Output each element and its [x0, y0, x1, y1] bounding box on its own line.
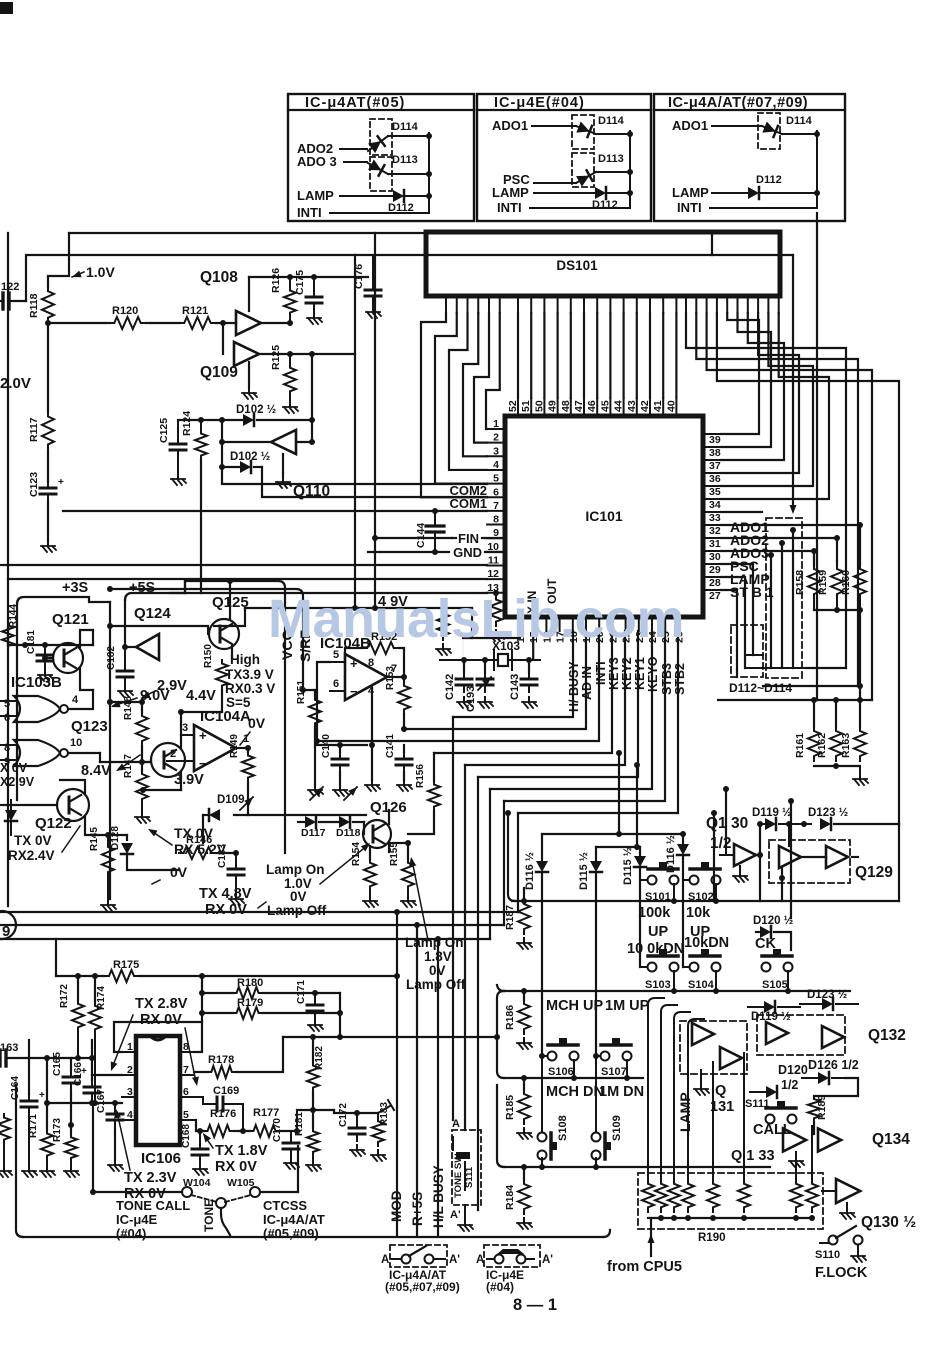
resistor R156 leg — [433, 753, 435, 781]
svg-text:R121: R121 — [182, 305, 208, 317]
svg-text:A': A' — [542, 1254, 553, 1266]
svg-text:10k: 10k — [686, 905, 711, 921]
arrow lamp2 — [412, 860, 428, 940]
svg-text:1/2: 1/2 — [781, 1078, 798, 1092]
wire R146 right — [217, 852, 236, 854]
wire from CPU5 arrow — [650, 1218, 652, 1256]
transistor Q122 — [57, 789, 89, 821]
svg-text:R189: R189 — [816, 1095, 828, 1120]
svg-text:D109: D109 — [217, 794, 245, 806]
svg-text:Lamp Off: Lamp Off — [406, 977, 466, 992]
wire STB3 line — [504, 631, 665, 801]
resistor R117 — [47, 323, 49, 412]
svg-text:TX3.9 V: TX3.9 V — [225, 667, 274, 682]
buffer Q130b — [822, 1190, 836, 1192]
svg-text:ADO1: ADO1 — [672, 118, 708, 133]
wire vert340 — [339, 993, 341, 1037]
svg-text:R172: R172 — [59, 984, 70, 1008]
resistors R190 network — [642, 1180, 654, 1212]
svg-text:Q129: Q129 — [855, 864, 893, 881]
svg-text:40: 40 — [665, 400, 677, 412]
ground Q133 — [795, 1152, 797, 1156]
diode D114 box1 — [370, 119, 392, 155]
svg-text:7: 7 — [493, 500, 499, 512]
svg-text:(#04): (#04) — [116, 1226, 146, 1241]
svg-text:RX2.4V: RX2.4V — [8, 848, 55, 863]
switch S105 — [762, 963, 771, 972]
svg-text:C165: C165 — [52, 1052, 63, 1076]
wire 3S vert x110 — [109, 602, 111, 899]
svg-text:8.4V: 8.4V — [81, 763, 111, 779]
svg-text:ManualsLib.com: ManualsLib.com — [268, 589, 684, 649]
svg-text:R187: R187 — [504, 905, 516, 930]
diode D119 half b — [748, 1006, 764, 1008]
svg-text:31: 31 — [709, 538, 721, 550]
wire R148 top — [110, 701, 142, 703]
IC101 left pins 1-13 — [487, 428, 505, 430]
diode D117 — [310, 787, 323, 800]
svg-text:C143: C143 — [509, 674, 521, 700]
capacitor C165 — [70, 1058, 72, 1070]
wire STB2 west drop — [517, 813, 519, 912]
resistor R160 — [859, 525, 861, 565]
svg-text:R+5S: R+5S — [410, 1192, 425, 1226]
ground R151 — [314, 785, 316, 790]
wire INTI box3 — [710, 207, 817, 209]
capacitor C175 — [313, 277, 315, 290]
partial transistor left — [0, 911, 16, 939]
svg-text:2: 2 — [127, 1064, 133, 1076]
diode D118 — [344, 787, 357, 800]
svg-text:1M DN: 1M DN — [599, 1084, 644, 1100]
wire row1 — [512, 900, 899, 902]
ground S110 — [857, 1245, 859, 1251]
capacitor C164 — [28, 1040, 30, 1094]
wire D114 to node — [388, 135, 429, 137]
switch S107 — [593, 1053, 599, 1059]
diode D112 box2 — [595, 187, 606, 199]
svg-text:10: 10 — [70, 737, 82, 749]
resistor R126 — [289, 277, 291, 289]
capacitor C122 partial — [0, 300, 3, 302]
dashed box ADO select — [766, 518, 802, 678]
svg-text:IC106: IC106 — [141, 1150, 181, 1167]
wire pin10 GND — [368, 551, 449, 553]
svg-text:37: 37 — [709, 460, 721, 472]
svg-text:CTCSS: CTCSS — [263, 1198, 307, 1213]
wire STB3 west drop — [503, 801, 505, 925]
svg-text:R144: R144 — [8, 604, 19, 628]
svg-text:R175: R175 — [113, 959, 139, 971]
buffer Q108 left — [236, 311, 261, 335]
svg-text:C142: C142 — [444, 674, 456, 700]
wire collector bus box1 — [428, 133, 430, 213]
svg-text:R120: R120 — [112, 305, 138, 317]
wire matrix row4 — [497, 1085, 504, 1167]
svg-text:49: 49 — [547, 400, 559, 412]
svg-text:122: 122 — [1, 281, 19, 293]
svg-text:RX0.3 V: RX0.3 V — [225, 681, 275, 696]
wire MOD vert — [396, 912, 398, 1235]
svg-text:LAMP: LAMP — [672, 185, 709, 200]
wire ADO vertical b — [781, 543, 783, 668]
diode D126 half — [802, 1077, 818, 1079]
wire KEY0 line — [490, 631, 652, 789]
svg-text:52: 52 — [507, 400, 519, 412]
svg-text:R180: R180 — [237, 977, 263, 989]
svg-text:1: 1 — [127, 1041, 133, 1053]
svg-text:Q123: Q123 — [71, 718, 108, 735]
svg-text:Q121: Q121 — [52, 611, 89, 628]
wire ADO3 — [344, 161, 367, 163]
wire D126 to R189 — [814, 1078, 858, 1096]
wire nor2 to Q123 — [99, 753, 101, 762]
svg-text:43: 43 — [626, 400, 638, 412]
dashed box Q129 — [769, 840, 850, 883]
ground R157 — [442, 644, 444, 649]
svg-text:RX 0V: RX 0V — [215, 1159, 257, 1175]
bus DS101 middle to IC101 top pins — [517, 313, 519, 398]
bus DS101 left loop to IC101 pins 1-6 — [421, 313, 487, 497]
switch S104 — [683, 966, 689, 968]
wire Q126 emitter — [388, 844, 390, 852]
diode D112 box1 — [393, 190, 404, 202]
ground Q110 — [282, 454, 284, 477]
svg-text:(#05,#07,#09): (#05,#07,#09) — [385, 1280, 460, 1294]
wire pin3 row — [47, 1102, 122, 1104]
buffer Q133 — [783, 1128, 806, 1151]
wire Q125 emitter — [231, 646, 233, 658]
svg-text:34: 34 — [709, 499, 721, 511]
diode D114 box3 — [758, 113, 780, 149]
svg-text:R145: R145 — [89, 827, 100, 851]
resistor R148 — [141, 700, 143, 712]
wire row1 west feed — [508, 813, 515, 901]
wire top to R161s — [718, 699, 872, 701]
svg-text:C166: C166 — [73, 1062, 84, 1086]
wire INTI line — [317, 631, 599, 741]
dashed box lower select — [731, 625, 763, 677]
wire SRF vert — [302, 600, 304, 690]
wire top bias rail — [249, 276, 368, 278]
svg-text:D118: D118 — [336, 827, 361, 839]
capacitor C183 — [235, 853, 237, 862]
dashed box A-A right — [484, 1245, 540, 1267]
wire VCC feed row — [185, 581, 285, 594]
svg-text:Q134: Q134 — [872, 1131, 910, 1148]
wire left border vert — [7, 233, 9, 906]
switch S109 — [592, 1133, 601, 1142]
ground R147 — [141, 804, 143, 812]
wire IC104B +in — [303, 662, 330, 690]
capacitor C123 — [47, 450, 49, 481]
wire vert 375 — [374, 233, 376, 608]
resistor R154 — [369, 846, 371, 859]
svg-text:X 0V: X 0V — [0, 761, 28, 775]
svg-text:IC-μ4E(#04): IC-μ4E(#04) — [494, 95, 585, 111]
svg-text:6: 6 — [4, 712, 10, 724]
svg-text:S105: S105 — [762, 979, 788, 991]
svg-text:STB2: STB2 — [673, 663, 687, 695]
svg-text:GND: GND — [453, 545, 482, 560]
wire pin33 — [721, 511, 762, 513]
svg-text:INTI: INTI — [297, 205, 322, 220]
wire bus h3 — [0, 938, 490, 940]
wire S109 feed — [595, 1056, 597, 1132]
svg-text:R117: R117 — [28, 417, 40, 442]
svg-text:0V: 0V — [170, 864, 188, 880]
capacitor C171 — [314, 993, 316, 998]
svg-text:3: 3 — [127, 1086, 133, 1098]
ground tonesw — [464, 1205, 466, 1218]
svg-text:F.LOCK: F.LOCK — [815, 1265, 868, 1281]
switch S102 — [683, 879, 689, 881]
wire C172 row — [334, 1110, 378, 1113]
svg-text:C172: C172 — [338, 1103, 349, 1127]
wire pin11 — [0, 564, 487, 566]
svg-text:Lamp On: Lamp On — [266, 862, 325, 877]
wire Q124 in — [125, 646, 136, 648]
svg-text:C167: C167 — [96, 1089, 107, 1113]
wire HLBUSY vert — [437, 939, 439, 1235]
svg-text:D116 ½: D116 ½ — [524, 852, 536, 890]
wire KEY1 west drop — [477, 777, 479, 1210]
svg-text:D113: D113 — [392, 154, 418, 166]
svg-text:TX 1.8V: TX 1.8V — [215, 1143, 268, 1159]
capacitor C182 — [124, 648, 126, 664]
wire KEY0 tap Q130 — [725, 789, 727, 847]
switch S110 — [829, 1236, 838, 1245]
wire SRF feed row — [110, 589, 303, 600]
wire KEY0 west drop — [489, 789, 491, 939]
wire col 744 — [743, 1053, 745, 1180]
buffer Q132a — [766, 1022, 788, 1044]
wire 9V vert x181 — [180, 712, 182, 735]
wire tone scurve — [221, 1208, 230, 1235]
svg-text:38: 38 — [709, 447, 721, 459]
wire vert202 — [201, 976, 203, 1022]
wire Q125 collector — [229, 581, 231, 619]
diode D113 box1 — [370, 157, 392, 191]
capacitor C176 — [372, 255, 374, 283]
buffer Q131a — [692, 1023, 714, 1045]
resistor R153 — [403, 677, 405, 682]
wire 5S riser — [184, 581, 186, 593]
svg-text:R162: R162 — [816, 733, 828, 758]
svg-text:R161: R161 — [794, 733, 806, 758]
IC101 bottom pins 14-26 — [519, 617, 521, 631]
resistor R162 — [835, 700, 837, 727]
resistor R155 — [407, 843, 409, 859]
wire collector bus box2 — [629, 131, 631, 208]
svg-text:S110: S110 — [815, 1249, 840, 1261]
transistor Q125 — [209, 619, 239, 649]
label 1.0V — [72, 272, 84, 277]
svg-text:D112: D112 — [592, 199, 618, 211]
svg-text:6: 6 — [493, 486, 499, 498]
svg-text:+: + — [58, 477, 64, 488]
variant box IC-u4AT(#05) — [288, 94, 474, 221]
svg-text:TX 4.8V: TX 4.8V — [199, 886, 252, 902]
diode D112 box3 — [748, 187, 759, 199]
wire Q109 ground — [248, 362, 250, 388]
transistor Q121 — [53, 643, 83, 673]
wire R148 mid — [141, 746, 143, 770]
resistor R159 — [836, 538, 838, 565]
svg-text:163: 163 — [0, 1042, 18, 1054]
wire STB3 tap CK — [790, 801, 792, 918]
svg-text:R126: R126 — [270, 268, 282, 293]
resistor R161 — [813, 700, 815, 727]
diode D128 — [108, 834, 127, 836]
svg-text:S104: S104 — [688, 979, 715, 991]
svg-text:8 — 1: 8 — 1 — [513, 1296, 557, 1314]
svg-text:1.0V: 1.0V — [86, 264, 115, 280]
nor gate 2 out — [68, 752, 100, 754]
svg-text:IC104A: IC104A — [200, 708, 251, 725]
svg-text:41: 41 — [652, 400, 664, 412]
wire R149 to D109 — [234, 782, 248, 815]
wire R175 row — [56, 975, 105, 977]
DS101 pins — [445, 297, 447, 313]
svg-text:INTI: INTI — [677, 200, 702, 215]
svg-text:LAMP: LAMP — [492, 185, 529, 200]
svg-text:45: 45 — [599, 400, 611, 412]
wire D102b to COM1 — [262, 467, 487, 497]
scan artifact corner — [0, 2, 13, 14]
switch S106 — [539, 1053, 545, 1059]
switch S111 in box — [452, 1137, 454, 1150]
resistor R164 — [495, 593, 497, 596]
svg-text:X2.9V: X2.9V — [0, 775, 35, 789]
capacitor C170 — [290, 1131, 292, 1136]
cpu IC101 — [505, 416, 703, 617]
arrow tx28 a — [112, 1015, 133, 1068]
wire R124 down — [200, 460, 202, 593]
wire AD IN line — [404, 631, 586, 729]
resistor R151 — [314, 690, 316, 696]
svg-text:7: 7 — [183, 1064, 189, 1076]
arrow lamp to Q126 — [320, 845, 368, 884]
svg-text:KEY1: KEY1 — [633, 657, 647, 690]
resistor R189 — [808, 1096, 820, 1122]
svg-text:D112~D114: D112~D114 — [729, 681, 792, 695]
svg-text:C193: C193 — [465, 686, 477, 712]
switch S103 — [640, 966, 647, 968]
resistor R174 — [94, 976, 96, 1002]
svg-text:A': A' — [450, 1209, 461, 1221]
svg-text:C181: C181 — [26, 630, 37, 654]
svg-text:Q132: Q132 — [868, 1027, 906, 1044]
wire H/BUSY west drop — [452, 717, 454, 1120]
IC106 pin stubs — [122, 1051, 136, 1053]
wire col92 down — [92, 1103, 94, 1192]
svg-text:Q130 ½: Q130 ½ — [861, 1214, 916, 1231]
wire IC104B pin4 gnd — [371, 688, 373, 780]
capacitor C144 — [434, 511, 436, 526]
svg-text:2.0V: 2.0V — [0, 375, 31, 392]
wire IC104B out — [387, 676, 404, 678]
wire ADO3 pin30 — [721, 550, 814, 552]
svg-text:D112: D112 — [756, 174, 782, 186]
wire pin13 — [170, 592, 487, 594]
diode D120 half — [756, 931, 760, 933]
wire KEY2 line — [465, 631, 625, 765]
wire row1110 — [297, 1109, 334, 1111]
wire R118 node — [45, 320, 51, 326]
capacitor C166 — [91, 1040, 93, 1080]
wire S109 to right curve — [596, 1159, 604, 1161]
resistor R157 — [437, 610, 449, 640]
variant box IC-u4E(#04) — [477, 94, 651, 221]
svg-text:R184: R184 — [504, 1185, 516, 1210]
wire ADO1 pin32 — [721, 524, 860, 526]
resistor R183 — [377, 1113, 379, 1118]
switch S101 — [640, 879, 647, 881]
svg-text:C141: C141 — [385, 734, 396, 758]
svg-text:S103: S103 — [645, 979, 671, 991]
ground R125 — [289, 402, 291, 407]
svg-text:IC-μ4E: IC-μ4E — [116, 1212, 158, 1227]
wire bus h2 — [0, 924, 504, 926]
svg-text:KEY2: KEY2 — [620, 657, 634, 690]
wire Q121 bias row — [8, 644, 93, 646]
svg-text:C170: C170 — [272, 1118, 283, 1142]
svg-text:R181: R181 — [294, 1112, 305, 1136]
wire far link 686 — [763, 685, 858, 687]
buffer Q131b — [720, 1047, 742, 1069]
svg-text:4: 4 — [127, 1109, 133, 1121]
wire row1037 — [283, 1036, 497, 1038]
svg-text:C144: C144 — [415, 523, 427, 548]
wire R146 leads — [126, 869, 128, 871]
resistor R184 — [523, 1167, 525, 1180]
capacitor C193 variable — [484, 660, 486, 672]
svg-text:5: 5 — [333, 649, 339, 661]
svg-text:5: 5 — [4, 698, 10, 710]
cpu IC106 — [136, 1036, 180, 1145]
diode D116 half a — [536, 861, 548, 872]
svg-text:0V: 0V — [290, 889, 307, 904]
wire Q122 collector — [60, 780, 85, 793]
svg-text:6: 6 — [333, 678, 339, 690]
svg-text:R156: R156 — [415, 764, 426, 788]
resistor R163 — [854, 727, 866, 761]
svg-text:RX 0V: RX 0V — [140, 1012, 182, 1028]
svg-text:51: 51 — [520, 400, 532, 412]
wire D123a to Q129b — [852, 856, 858, 858]
resistor R118 — [42, 287, 54, 323]
svg-text:R160: R160 — [840, 570, 852, 595]
wire col 812 — [811, 1126, 813, 1180]
wire KEY3 tap — [618, 753, 620, 834]
svg-text:DS101: DS101 — [556, 258, 598, 273]
svg-text:C169: C169 — [213, 1085, 239, 1097]
wire ADO1 box3 — [712, 125, 762, 127]
svg-text:TONE: TONE — [202, 1199, 216, 1232]
wire pin15 to xtal — [532, 631, 534, 660]
capacitor C141 — [403, 745, 405, 752]
svg-text:28: 28 — [709, 577, 721, 589]
wire 9V corner to xtal — [471, 608, 473, 638]
switch S108 — [538, 1133, 547, 1142]
svg-text:R151: R151 — [296, 680, 307, 704]
wire Q123 emitter to bus — [143, 789, 181, 791]
resistor R125 — [287, 351, 293, 357]
wire collector bus box3 — [816, 131, 818, 208]
wire S101 S102 drops — [673, 884, 675, 901]
resistor R149 — [247, 748, 249, 752]
